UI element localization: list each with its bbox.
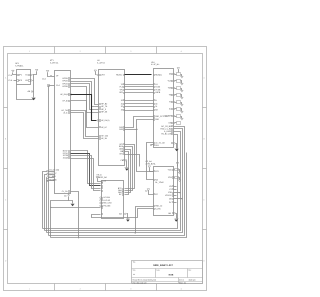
- svg-text:dP3: dP3: [19, 79, 22, 82]
- svg-text:PAD_1#: PAD_1#: [155, 205, 163, 208]
- svg-text:C6_D7_B4: C6_D7_B4: [49, 169, 60, 172]
- IC U5 reference label: [97, 173, 108, 178]
- wire J1 bottom-left to ground: [17, 85, 34, 100]
- sheet outer border: [4, 47, 207, 291]
- stub VD33Y U6: [174, 195, 177, 197]
- wire HPDA thick U2-U3: [71, 95, 97, 121]
- svg-text:PAD_CL_B2: PAD_CL_B2: [160, 127, 171, 130]
- svg-text:1: 1: [29, 287, 31, 290]
- resistor R YDA: [174, 169, 181, 175]
- svg-text:CL_PA: CL_PA: [62, 190, 68, 193]
- svg-text:Y1B: Y1B: [168, 176, 172, 179]
- pins U6 right group: [165, 168, 174, 203]
- svg-text:A.CLK2: A.CLK2: [103, 199, 110, 202]
- pin U5 VT: [102, 180, 107, 183]
- svg-text:A3PB: A3PB: [155, 91, 161, 94]
- power flag top right U7: [177, 68, 180, 73]
- wire WB U2-U3: [71, 113, 99, 139]
- svg-text:VD3.3Y: VD3.3Y: [165, 194, 172, 197]
- pin U6 BT: [154, 193, 159, 196]
- pin U5 XG43: [102, 191, 103, 192]
- svg-text:B: B: [203, 138, 205, 141]
- svg-text:K_AR7.B: K_AR7.B: [97, 62, 106, 65]
- svg-text:BT1: BT1: [155, 170, 159, 173]
- svg-text:HP1B: HP1B: [62, 82, 68, 85]
- pin U7 RUN: [154, 73, 163, 76]
- ground U5: [126, 219, 130, 222]
- svg-text:KiCad E.D.A. kicad 4022-prod: KiCad E.D.A. kicad 4022-prod: [133, 278, 156, 281]
- svg-text:3: 3: [130, 287, 132, 290]
- pin U7 CB bubble: [172, 143, 176, 145]
- svg-text:4022-pro: 4022-pro: [189, 278, 196, 281]
- frame grid ticks: [4, 47, 207, 291]
- pin U5 left mid: [102, 207, 103, 209]
- svg-text:VT: VT: [56, 75, 59, 78]
- wire X0 U3-U7: [125, 100, 154, 102]
- svg-text:VCB3P: VCB3P: [165, 115, 172, 118]
- svg-text:Shet: 1/1: Shet: 1/1: [179, 281, 186, 284]
- IC U2 body: [55, 71, 71, 194]
- svg-text:PE.AKE: PE.AKE: [103, 204, 111, 207]
- wire U7 4CTCDE to U6 RA: [147, 143, 154, 180]
- svg-text:FLA: FLA: [120, 86, 124, 89]
- svg-text:H1: H1: [25, 74, 27, 77]
- svg-text:K.LPA: K.LPA: [155, 207, 161, 210]
- svg-text:HCLR#: HCLR#: [103, 196, 110, 199]
- pin U3 HPTAB left: [100, 135, 109, 138]
- pin U2 HPB7: [62, 100, 69, 103]
- resistor column right of U7: [177, 73, 181, 125]
- wire U5 low to U6 KLPA: [92, 209, 154, 218]
- svg-text:PAD: PAD: [155, 118, 159, 121]
- power flag VCC right of J1: [34, 69, 39, 74]
- svg-text:CLA: CLA: [42, 78, 46, 81]
- wire BB U3-U5: [125, 152, 129, 195]
- wire BT1 U3-U5: [125, 145, 135, 189]
- ground CB U3: [125, 168, 129, 171]
- wire bus line 5: [49, 235, 51, 237]
- title block Size label: [133, 268, 136, 276]
- wire U2 AB to ground: [69, 201, 73, 204]
- IC U3 body: [99, 70, 125, 166]
- svg-text:3: 3: [130, 50, 132, 53]
- svg-text:YC3B: YC3B: [155, 88, 161, 91]
- junction PAD2: [136, 129, 137, 130]
- pins U5 left bubble group: [100, 196, 113, 207]
- svg-text:4: 4: [181, 287, 183, 290]
- connector J1 reference label: [15, 62, 23, 67]
- svg-text:HP_B2: HP_B2: [101, 103, 107, 106]
- pin U6 KLPA: [154, 207, 162, 210]
- junction Y3B: [179, 192, 180, 193]
- pins U5 right group: [118, 187, 124, 196]
- IC U6 body: [154, 167, 174, 216]
- IC U3 reference label: [97, 59, 106, 64]
- wire vertical right of J1: [33, 75, 35, 98]
- svg-text:BC: BC: [119, 193, 122, 196]
- wire BP1 U3-U7: [125, 92, 154, 94]
- svg-text:B: B: [5, 138, 7, 141]
- ground U6: [174, 219, 178, 222]
- wire U2 AB to left bus: [51, 197, 69, 238]
- pins U2 left bubble group: [47, 169, 60, 182]
- wire bus left L2: [45, 175, 47, 231]
- svg-text:A_D7_C: A_D7_C: [49, 172, 57, 175]
- svg-text:YB: YB: [169, 185, 172, 188]
- wire DB U6 to vertical: [174, 198, 183, 200]
- pins U7 left group A: [154, 83, 162, 94]
- svg-text:B: B: [155, 99, 157, 102]
- wire HP3B U2-U3: [71, 79, 99, 105]
- pin 2 J1 left: [8, 79, 22, 82]
- pin U2 CLPA: [62, 190, 70, 193]
- sheet inner border: [8, 54, 203, 284]
- wire PAD2 stub U3: [125, 129, 137, 131]
- wire HP1B U2-U3: [71, 84, 99, 110]
- ground U7 CB: [175, 149, 179, 152]
- power flag above R YDA: [176, 163, 179, 167]
- svg-text:HP_DA(1): HP_DA(1): [101, 119, 110, 122]
- svg-text:BT: BT: [155, 193, 158, 196]
- pin U3 RUN thick: [116, 73, 124, 76]
- svg-text:YP1: YP1: [119, 88, 123, 91]
- svg-text:C: C: [5, 199, 7, 202]
- wire bus left L1: [43, 172, 47, 229]
- svg-text:X1: X1: [121, 102, 123, 105]
- wire FLA U3-U7: [125, 86, 154, 88]
- svg-text:BC_D2_BA: BC_D2_BA: [161, 125, 172, 128]
- pin 4 J1 right with bubble: [25, 79, 33, 82]
- connector J1 body: [17, 70, 31, 85]
- svg-text:TO30: TO30: [155, 86, 161, 89]
- pin U5 AB right bubble: [119, 213, 126, 216]
- wire BC_D2_BA to bus: [51, 127, 185, 236]
- svg-text:C: C: [203, 199, 205, 202]
- pin U5 BCW: [102, 183, 103, 184]
- pins U2 right group B: [63, 150, 70, 160]
- wire XC2B U2-U5: [71, 156, 101, 189]
- title block kicad row: [133, 278, 156, 281]
- wire CLA vertical left bus: [48, 86, 50, 236]
- svg-text:XG43: XG43: [63, 157, 69, 160]
- svg-text:G2: G2: [145, 190, 148, 193]
- pin U5 FC26: [102, 186, 103, 187]
- pin U3 CB bubble: [120, 159, 126, 162]
- pin U3 PAD2: [119, 128, 124, 131]
- svg-text:D: D: [5, 260, 7, 263]
- wire HP2B U2-U3: [71, 82, 99, 107]
- wire U5 mid to left bus: [51, 207, 101, 209]
- svg-text:A1: A1: [155, 83, 157, 86]
- svg-text:D: D: [203, 260, 205, 263]
- IC U5 body: [102, 181, 124, 219]
- wire HPB7 U2-U3: [71, 101, 99, 128]
- svg-text:Title: Title: [133, 261, 136, 264]
- svg-text:CLA: CLA: [8, 79, 12, 82]
- pin U3 HPDA1 bubble: [97, 119, 110, 122]
- pin U7 PAD2: [154, 118, 160, 121]
- svg-text:K.PMBCL: K.PMBCL: [15, 64, 23, 67]
- svg-text:BP1: BP1: [119, 91, 123, 94]
- wire U6 AB to ground: [176, 214, 177, 219]
- wire X2 U3-U7: [125, 106, 154, 108]
- pin CLA U2 left: [48, 84, 61, 87]
- wire X3 U3-U7: [125, 110, 154, 112]
- svg-text:HP_B7: HP_B7: [62, 100, 68, 103]
- pin U6 PAD1: [154, 205, 164, 208]
- wire PA_BC_DB to bus: [43, 135, 178, 229]
- svg-text:PAD: PAD: [119, 128, 123, 131]
- svg-text:HP_B7: HP_B7: [101, 126, 107, 129]
- svg-text:HP3B: HP3B: [62, 77, 68, 80]
- svg-text:Rev:: Rev:: [188, 268, 192, 271]
- svg-text:YO3: YO3: [167, 80, 171, 83]
- pin U6 BT1: [154, 170, 159, 173]
- stub Y2 U6: [174, 189, 177, 191]
- pins U3 right group C: [121, 99, 125, 112]
- IC U7 reference label: [151, 61, 160, 66]
- svg-text:RUN/C: RUN/C: [116, 73, 123, 76]
- svg-text:PA7B3B: PA7B3B: [49, 179, 57, 182]
- svg-text:DL_TOKE: DL_TOKE: [155, 181, 164, 184]
- wire U7 CB to ground: [176, 144, 177, 149]
- svg-text:YDA: YDA: [168, 168, 173, 171]
- IC U2 reference label: [50, 59, 58, 64]
- resistor R Y1B: [174, 177, 181, 182]
- ground below U2: [71, 204, 75, 207]
- junction DB U6: [181, 198, 182, 199]
- wire CLPA U2 down: [71, 192, 79, 238]
- pin U7 PA1 stub: [151, 145, 154, 146]
- svg-text:Y3B: Y3B: [168, 191, 172, 194]
- power flag VT U2: [42, 70, 51, 80]
- svg-text:2: 2: [80, 287, 82, 290]
- power flag G2: [145, 189, 154, 195]
- svg-text:Date:: Date:: [156, 268, 160, 271]
- wire bus left L4 tap: [47, 180, 49, 182]
- wire PAD1 U3-U7: [125, 117, 154, 128]
- pin U2 HPTA: [61, 109, 69, 112]
- pin U3 LRT bubble: [97, 74, 105, 77]
- svg-text:A: A: [203, 76, 205, 79]
- svg-text:3L: 3L: [155, 105, 158, 108]
- title block outline: [132, 261, 203, 284]
- pins U7 lower right group: [160, 125, 172, 136]
- wire XG43 U2-U5: [71, 159, 101, 191]
- wire X1 U3-U7: [125, 103, 154, 105]
- wire U6 PAD1 to bus: [136, 207, 154, 233]
- ground below J1: [32, 98, 36, 101]
- svg-text:B3: B3: [155, 109, 158, 112]
- wire HPTA U2-U3: [71, 111, 99, 137]
- pins U3 right group D: [119, 143, 124, 156]
- svg-text:HP_3: HP_3: [101, 108, 107, 111]
- wire PAD2 U3-U7: [137, 120, 154, 130]
- svg-text:2: 2: [80, 50, 82, 53]
- svg-text:HP2B: HP2B: [62, 80, 68, 83]
- svg-text:K.ART-DL: K.ART-DL: [50, 62, 58, 65]
- pins U7 right column stubs: [165, 73, 177, 125]
- wire Y3B U6 to vertical: [174, 192, 181, 194]
- pin U3 PAD1: [119, 126, 124, 129]
- svg-text:H3: H3: [25, 79, 27, 82]
- svg-text:HP_3B: HP_3B: [101, 137, 108, 140]
- svg-text:HP_3E: HP_3E: [101, 111, 108, 114]
- title block Title label: [133, 261, 136, 264]
- title block Rev label: [188, 268, 192, 271]
- junction U6 PAD1 bus: [135, 232, 136, 233]
- svg-text:Id: 1/1: Id: 1/1: [179, 278, 184, 281]
- pin U3 HP3B left: [100, 137, 108, 140]
- junction CLPA on bus5: [78, 237, 79, 238]
- wire Y0 U3-U7: [125, 84, 154, 86]
- junction U5 mid left: [50, 207, 51, 208]
- svg-text:4: 4: [181, 50, 183, 53]
- pins U7 left group B: [154, 99, 159, 112]
- net label CLA J1: [8, 74, 12, 77]
- svg-text:dP1: dP1: [19, 74, 22, 77]
- svg-text:RE.CLKE: RE.CLKE: [103, 202, 112, 205]
- svg-text:DC: DC: [169, 201, 172, 204]
- wire BT2 U3 stub: [125, 155, 140, 167]
- svg-text:AB: AB: [64, 195, 67, 198]
- svg-text:Y2: Y2: [169, 188, 171, 191]
- IC U6 reference label: [146, 160, 157, 165]
- wire ABA U3-U5: [125, 150, 131, 193]
- svg-text:LRT: LRT: [101, 74, 105, 77]
- svg-text:A.TB_BLNL: A.TB_BLNL: [146, 163, 157, 166]
- wire RUN thick U3-U7: [125, 74, 152, 76]
- pin VT U2: [51, 75, 60, 78]
- power flag U3 LRT: [94, 70, 97, 75]
- svg-text:1: 1: [29, 50, 31, 53]
- pin U5 left low: [102, 214, 103, 215]
- svg-text:Y3: Y3: [169, 101, 171, 104]
- wire PAD2 down to U6 BT1: [137, 130, 154, 172]
- svg-text:SIRE_BABY LIGT: SIRE_BABY LIGT: [153, 264, 173, 267]
- wire BOA U3-U5: [125, 147, 133, 191]
- svg-text:AB: AB: [28, 90, 31, 93]
- wire A_LBSE to bus: [45, 132, 181, 231]
- svg-text:BT2: BT2: [120, 153, 124, 156]
- pin U7 PAD1: [154, 115, 169, 118]
- title block id row: [179, 278, 196, 281]
- pin U7 PA1: [154, 144, 159, 147]
- wire bus left L3: [46, 178, 48, 233]
- svg-text:HP0B: HP0B: [62, 85, 68, 88]
- pin U6 AB bubble: [168, 212, 175, 215]
- grounds of resistor column: [181, 75, 184, 121]
- title block file row: [133, 281, 186, 284]
- wire PAD_CL_B2 to bus: [47, 129, 183, 233]
- pin U7 4CTCDE: [154, 142, 166, 145]
- svg-text:X2: X2: [121, 105, 123, 108]
- svg-text:AB: AB: [119, 213, 122, 216]
- pin U2 WB: [63, 112, 69, 115]
- pins U3 right group B: [119, 83, 124, 94]
- svg-text:A4: A4: [133, 273, 135, 276]
- pin U5 XC2B: [102, 188, 103, 189]
- svg-text:DB: DB: [169, 198, 172, 201]
- pin U2 AB bottom bubble: [64, 194, 69, 198]
- stub DC U6: [174, 202, 177, 204]
- title block Date label: [156, 268, 173, 276]
- svg-text:D1: D1: [169, 73, 172, 76]
- svg-text:A: A: [5, 76, 7, 79]
- pin 3 J1 right with bubble: [25, 74, 33, 77]
- svg-text:CLA: CLA: [56, 84, 60, 87]
- svg-text:C_BB3: C_BB3: [49, 175, 56, 178]
- svg-text:PA1: PA1: [155, 144, 159, 147]
- wire BCW U2-U5: [71, 151, 101, 184]
- pin AB bubble J1: [28, 90, 34, 93]
- svg-text:PA_BC_DB: PA_BC_DB: [161, 133, 172, 136]
- wire HP0B U2-U3: [71, 87, 99, 113]
- svg-text:RUN(1): RUN(1): [155, 73, 162, 76]
- title block title text: [153, 264, 173, 267]
- power flag VCC J1: [12, 70, 17, 74]
- pin U2 HPDA bubble: [60, 93, 72, 96]
- wire FC26 U2-U5 dark: [71, 154, 101, 186]
- svg-text:A_LBSE: A_LBSE: [164, 130, 172, 133]
- svg-text:Size: Size: [133, 268, 136, 271]
- power flag U5 VT: [96, 177, 102, 182]
- pins U3 left group A: [100, 103, 108, 114]
- pin U6 RA: [154, 179, 165, 185]
- pin U3 HPB7 left: [100, 126, 107, 129]
- wire YP1 U3-U7: [125, 89, 154, 91]
- wire U5 AB to ground: [127, 214, 128, 219]
- wire bus line 5 full: [51, 153, 187, 238]
- svg-text:File: clkb_bab.sch: File: clkb_bab.sch: [133, 281, 147, 284]
- pins U2 right group A: [62, 77, 69, 88]
- svg-text:NAB: NAB: [169, 274, 174, 277]
- svg-text:AB: AB: [168, 212, 171, 215]
- IC U7 body: [154, 69, 174, 148]
- power flag U6 BT1: [148, 166, 154, 172]
- svg-text:K.LIC_B.L: K.LIC_B.L: [151, 63, 160, 66]
- wire CB U3 to ground: [126, 161, 128, 168]
- svg-text:HP_TA: HP_TA: [101, 105, 108, 108]
- svg-text:3C: 3C: [155, 102, 158, 105]
- frame grid reference labels: [5, 50, 206, 291]
- svg-text:HP_DA(1): HP_DA(1): [60, 93, 69, 96]
- pin 1 J1 left: [17, 74, 23, 77]
- stub YB U6: [174, 186, 177, 188]
